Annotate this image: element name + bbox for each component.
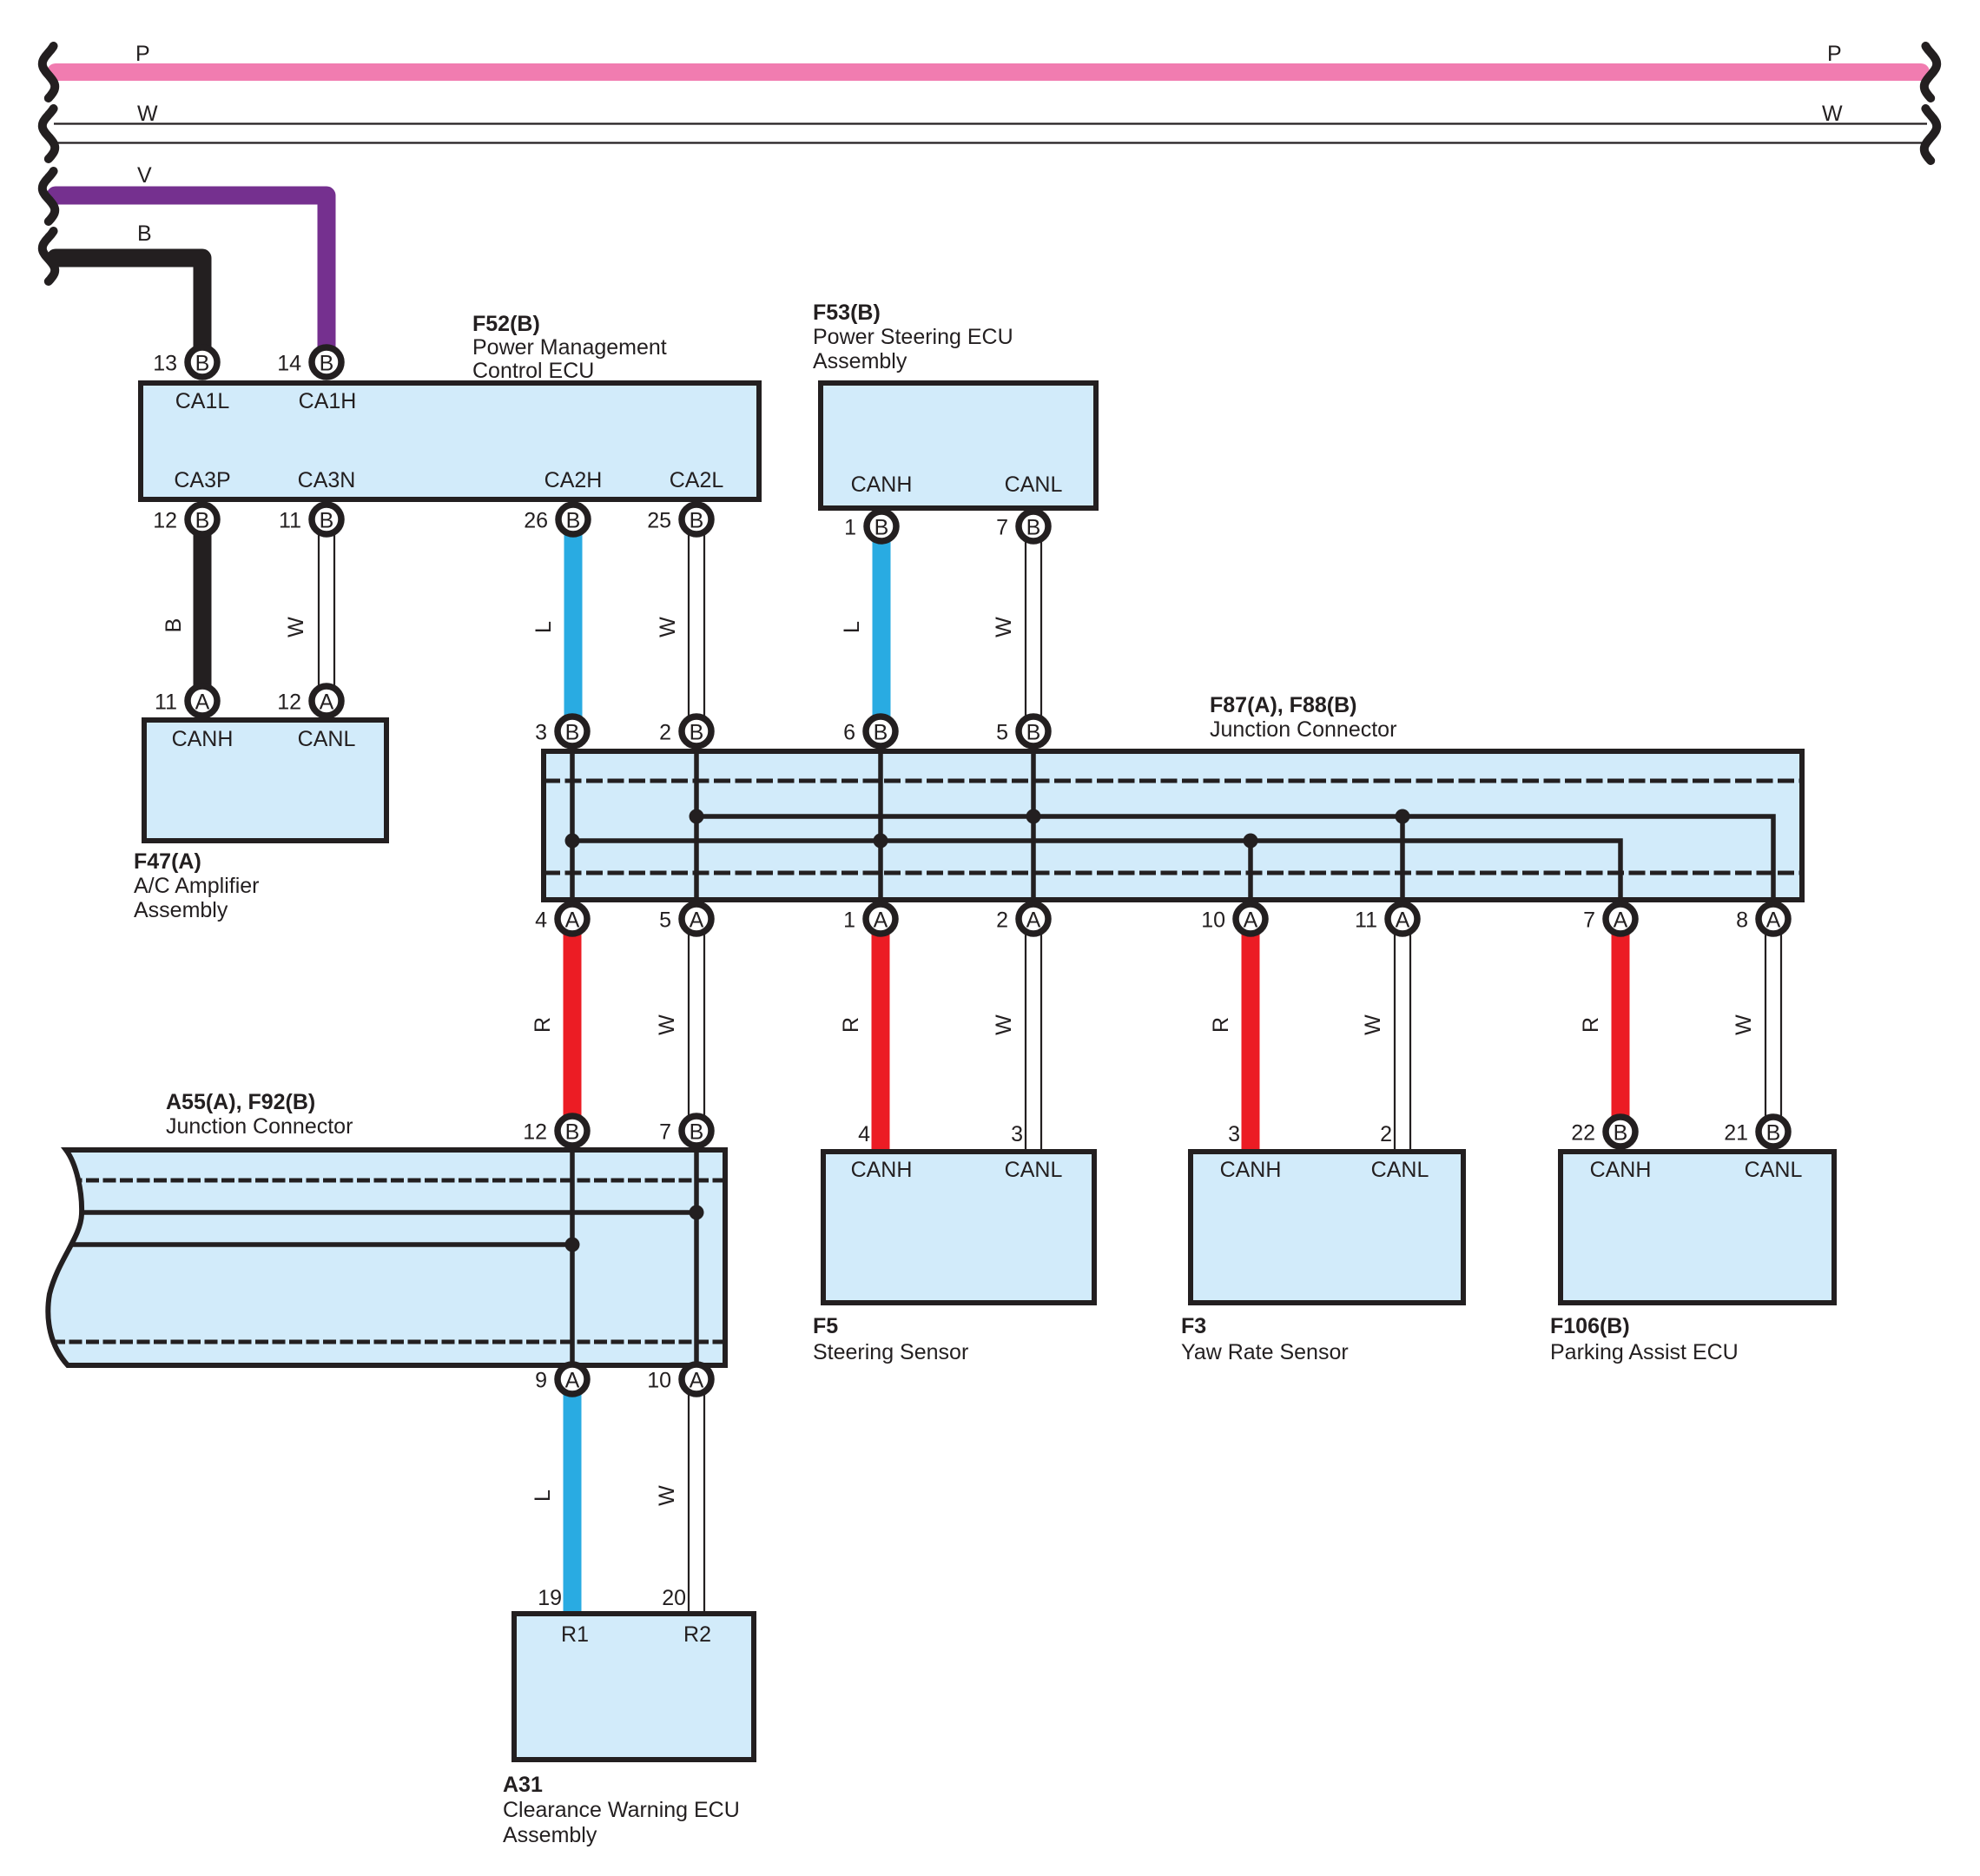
svg-text:11: 11 [155, 690, 177, 715]
svg-text:P: P [135, 42, 150, 66]
svg-text:A/C Amplifier: A/C Amplifier [134, 874, 259, 898]
svg-text:2: 2 [1380, 1122, 1392, 1146]
svg-text:F53(B): F53(B) [813, 301, 881, 325]
svg-text:Clearance Warning ECU: Clearance Warning ECU [503, 1798, 740, 1822]
svg-text:CA1L: CA1L [175, 389, 230, 413]
pin 13(B) F52 CA1L [153, 347, 217, 377]
junction wire pin6B-pin1A [878, 751, 883, 900]
svg-text:A31: A31 [503, 1773, 543, 1797]
pin 5(B) junction [996, 717, 1048, 746]
svg-text:7: 7 [1583, 908, 1595, 933]
svg-text:V: V [137, 163, 152, 188]
svg-text:CANL: CANL [1371, 1158, 1429, 1182]
svg-text:W: W [1732, 1014, 1756, 1035]
svg-text:CA3N: CA3N [298, 468, 356, 492]
pin 11(A) junction [1355, 904, 1417, 934]
svg-text:CANH: CANH [1590, 1158, 1652, 1182]
svg-text:P: P [1827, 42, 1842, 66]
svg-text:Junction Connector: Junction Connector [166, 1114, 353, 1139]
svg-text:R: R [1209, 1017, 1233, 1033]
svg-text:B: B [874, 516, 889, 540]
wire W CA3N to F47 CANL [319, 533, 334, 688]
svg-text:1: 1 [843, 908, 855, 933]
wire W white trunk [54, 124, 1927, 143]
svg-text:21: 21 [1724, 1121, 1748, 1146]
svg-text:B: B [690, 509, 704, 533]
svg-text:B: B [195, 509, 210, 533]
svg-text:R: R [1579, 1017, 1603, 1033]
svg-text:B: B [162, 618, 186, 633]
svg-text:W: W [137, 102, 158, 126]
junction node pin1 CANH [874, 834, 888, 849]
svg-text:R: R [531, 1017, 555, 1033]
wire L CA2H to junction 3B [564, 533, 583, 718]
pin 10(A) A55 [647, 1364, 711, 1394]
junction F87 CANH bus (lower) with elbow to pin 7A [572, 841, 1620, 900]
junction node pin2 CANL [1026, 809, 1041, 824]
svg-text:20: 20 [662, 1586, 686, 1610]
A55 wire pin7B-pin10A [694, 1150, 699, 1365]
svg-text:11: 11 [1355, 908, 1377, 933]
svg-text:13: 13 [153, 352, 177, 376]
svg-text:22: 22 [1571, 1121, 1595, 1146]
svg-text:CANH: CANH [172, 727, 234, 751]
svg-text:F106(B): F106(B) [1550, 1314, 1630, 1338]
A55 dashed bus top [52, 1179, 725, 1183]
svg-text:R: R [839, 1017, 863, 1033]
svg-text:B: B [1766, 1121, 1781, 1146]
break symbol P right [1924, 46, 1937, 98]
svg-text:A: A [874, 908, 888, 933]
break symbol P left [43, 46, 55, 98]
svg-text:B: B [565, 1120, 580, 1145]
svg-text:A: A [690, 1369, 704, 1393]
svg-text:B: B [690, 721, 704, 745]
pin 7(B) A55 [659, 1116, 711, 1146]
svg-text:F3: F3 [1181, 1314, 1206, 1338]
junction wire pin3B-pin4A [570, 751, 575, 900]
junction node A55 CANL [690, 1206, 704, 1220]
svg-text:Parking Assist ECU: Parking Assist ECU [1550, 1340, 1739, 1364]
svg-text:B: B [1614, 1121, 1628, 1146]
svg-text:9: 9 [535, 1369, 547, 1393]
svg-text:CA2L: CA2L [670, 468, 724, 492]
svg-text:B: B [137, 221, 152, 246]
svg-text:L: L [531, 621, 556, 633]
svg-text:3: 3 [1011, 1122, 1023, 1146]
svg-text:B: B [320, 509, 334, 533]
wire W A55 10A to A31 pin 20 [689, 1393, 704, 1611]
svg-text:2: 2 [996, 908, 1008, 933]
svg-text:12: 12 [153, 509, 177, 533]
svg-text:4: 4 [858, 1122, 870, 1146]
svg-text:CANL: CANL [298, 727, 356, 751]
pin 25(B) F52 CA2L [647, 505, 711, 534]
svg-text:B: B [690, 1120, 704, 1145]
svg-text:Assembly: Assembly [503, 1823, 597, 1847]
svg-text:F87(A), F88(B): F87(A), F88(B) [1210, 693, 1356, 717]
connector A31 Clearance Warning ECU Assembly [514, 1614, 754, 1760]
svg-text:W: W [655, 1014, 679, 1035]
pin 5(A) junction [659, 904, 711, 934]
wire R junction 4A to A55 12B [564, 932, 582, 1118]
svg-text:CANH: CANH [851, 472, 913, 497]
wire P pink trunk [56, 63, 1921, 81]
wire W junction 8A to F106 21B [1765, 932, 1781, 1119]
svg-text:B: B [320, 352, 334, 376]
connector F3 Yaw Rate Sensor [1191, 1152, 1463, 1303]
junction F87 dashed bus top [544, 779, 1802, 783]
svg-text:F5: F5 [813, 1314, 838, 1338]
svg-text:A: A [1766, 908, 1781, 933]
junction wire bus to pin 11A [1400, 816, 1405, 900]
svg-text:Yaw Rate Sensor: Yaw Rate Sensor [1181, 1340, 1349, 1364]
svg-text:CA3P: CA3P [174, 468, 230, 492]
svg-text:CA1H: CA1H [299, 389, 357, 413]
svg-text:CANL: CANL [1745, 1158, 1803, 1182]
svg-text:CANH: CANH [851, 1158, 913, 1182]
wire W junction 5A to A55 7B [689, 932, 704, 1118]
pin 21(B) F106 CANL [1724, 1117, 1788, 1146]
pin 12(B) A55 [523, 1116, 587, 1146]
junction F87 dashed bus bottom [544, 871, 1802, 875]
connector F106(B) Parking Assist ECU [1561, 1152, 1834, 1303]
junction wire pin2B-pin5A [694, 751, 699, 900]
junction node pin4 CANH [565, 834, 580, 849]
svg-text:25: 25 [647, 509, 671, 533]
pin 22(B) F106 CANH [1571, 1117, 1635, 1146]
pin 2(A) junction [996, 904, 1048, 934]
svg-text:11: 11 [279, 509, 301, 533]
pin 14(B) F52 CA1H [277, 347, 341, 377]
svg-text:B: B [565, 721, 580, 745]
A55 wire pin12B-pin9A [570, 1150, 575, 1365]
pin 2(B) junction [659, 717, 711, 746]
connector F87(A), F88(B) Junction Connector body [544, 751, 1802, 900]
wire W F53 CANL to junction 5B [1026, 540, 1041, 718]
A55 CANL bus (upper) [52, 1210, 696, 1215]
wire L F53 CANH to junction 6B [873, 540, 891, 718]
svg-text:W: W [655, 1485, 679, 1506]
svg-text:7: 7 [996, 516, 1008, 540]
svg-text:2: 2 [659, 721, 671, 745]
wire L A55 9A to A31 pin 19 [564, 1393, 582, 1611]
connector F52(B) Power Management Control ECU [141, 383, 759, 499]
svg-text:B: B [874, 721, 888, 745]
pin 7(B) F53 CANL [996, 512, 1048, 541]
connector F53(B) Power Steering ECU Assembly [821, 383, 1096, 508]
svg-text:5: 5 [659, 908, 671, 933]
pin 6(B) junction [843, 717, 895, 746]
A55 CANH bus (lower) [52, 1242, 572, 1247]
pin 12(A) F47 CANL [277, 686, 341, 716]
svg-text:A: A [1614, 908, 1628, 933]
junction node A55 CANH [565, 1238, 580, 1252]
svg-text:A: A [565, 908, 580, 933]
svg-text:10: 10 [647, 1369, 671, 1393]
svg-text:6: 6 [843, 721, 855, 745]
junction node pin5 CANL [690, 809, 704, 824]
svg-text:A: A [1026, 908, 1041, 933]
svg-text:Power Steering ECU: Power Steering ECU [813, 325, 1013, 349]
svg-text:A: A [565, 1369, 580, 1393]
svg-text:Steering Sensor: Steering Sensor [813, 1340, 968, 1364]
svg-text:Assembly: Assembly [134, 898, 228, 922]
junction wire pin5B-pin2A [1031, 751, 1036, 900]
svg-text:W: W [1361, 1014, 1385, 1035]
pin 10(A) junction [1201, 904, 1265, 934]
svg-text:W: W [284, 617, 308, 637]
svg-text:4: 4 [535, 908, 547, 933]
svg-text:B: B [1026, 516, 1041, 540]
svg-text:7: 7 [659, 1120, 671, 1145]
pin 9(A) A55 [535, 1364, 587, 1394]
svg-text:W: W [1822, 102, 1843, 126]
svg-text:F47(A): F47(A) [134, 849, 201, 874]
pin 1(A) junction [843, 904, 895, 934]
svg-text:L: L [840, 621, 864, 633]
svg-text:A: A [690, 908, 704, 933]
pin 26(B) F52 CA2H [524, 505, 588, 534]
wire B black CA1L [56, 258, 202, 347]
svg-text:A: A [195, 690, 210, 715]
pin 4(A) junction [535, 904, 587, 934]
svg-text:A: A [1244, 908, 1258, 933]
junction F87 CANL bus (upper) with elbow to pin 8A [696, 816, 1773, 900]
svg-text:A55(A), F92(B): A55(A), F92(B) [166, 1090, 315, 1114]
wire W junction 11A to F3 CANL [1395, 932, 1410, 1149]
svg-text:CA2H: CA2H [544, 468, 603, 492]
svg-text:L: L [531, 1490, 555, 1502]
wire V violet CA1H [56, 195, 327, 347]
break symbol W left [43, 109, 55, 159]
pin 7(A) junction [1583, 904, 1635, 934]
svg-text:Control ECU: Control ECU [472, 359, 594, 383]
pin 1(B) F53 CANH [844, 512, 896, 541]
wire R junction 10A to F3 CANH [1242, 932, 1260, 1149]
pin 3(B) junction [535, 717, 587, 746]
pin 12(B) F52 CA3P [153, 505, 217, 534]
svg-text:14: 14 [277, 352, 301, 376]
svg-text:R1: R1 [561, 1622, 589, 1647]
wire W CA2L to junction 2B [689, 533, 704, 718]
svg-text:10: 10 [1201, 908, 1225, 933]
svg-text:12: 12 [277, 690, 301, 715]
svg-text:F52(B): F52(B) [472, 312, 540, 336]
svg-text:CANL: CANL [1005, 472, 1063, 497]
svg-text:3: 3 [535, 721, 547, 745]
pin 11(B) F52 CA3N [279, 505, 341, 534]
svg-text:B: B [566, 509, 581, 533]
svg-text:B: B [195, 352, 210, 376]
break symbol B left [43, 231, 55, 281]
junction node pin10 CANH [1244, 834, 1258, 849]
svg-text:W: W [992, 1014, 1016, 1035]
A55 dashed bus bottom [52, 1340, 725, 1344]
junction node pin11 CANL [1396, 809, 1410, 824]
pin 11(A) F47 CANH [155, 686, 217, 716]
wire W junction 2A to F5 CANL [1026, 932, 1041, 1149]
svg-text:Junction Connector: Junction Connector [1210, 717, 1396, 742]
svg-text:A: A [1396, 908, 1410, 933]
svg-text:W: W [992, 617, 1016, 637]
svg-text:5: 5 [996, 721, 1008, 745]
svg-text:12: 12 [523, 1120, 547, 1145]
svg-text:19: 19 [538, 1586, 562, 1610]
svg-text:26: 26 [524, 509, 548, 533]
svg-text:Assembly: Assembly [813, 349, 907, 373]
wire B CA3P to F47 CANH [194, 533, 212, 688]
svg-text:B: B [1026, 721, 1041, 745]
break symbol V left [43, 171, 55, 221]
svg-text:Power Management: Power Management [472, 335, 667, 360]
connector F47(A) A/C Amplifier Assembly [144, 720, 386, 841]
wire R junction 1A to F5 CANH [872, 932, 890, 1149]
connector F5 Steering Sensor [823, 1152, 1094, 1303]
svg-text:1: 1 [844, 516, 856, 540]
pin 8(A) junction [1736, 904, 1788, 934]
svg-text:W: W [656, 617, 680, 637]
junction wire bus to pin 10A [1248, 841, 1253, 900]
wire R junction 7A to F106 22B [1612, 932, 1630, 1119]
svg-text:3: 3 [1228, 1122, 1240, 1146]
svg-text:CANL: CANL [1005, 1158, 1063, 1182]
svg-text:8: 8 [1736, 908, 1748, 933]
svg-text:CANH: CANH [1220, 1158, 1282, 1182]
break symbol W right [1924, 109, 1937, 161]
svg-text:A: A [320, 690, 334, 715]
svg-text:R2: R2 [683, 1622, 711, 1647]
